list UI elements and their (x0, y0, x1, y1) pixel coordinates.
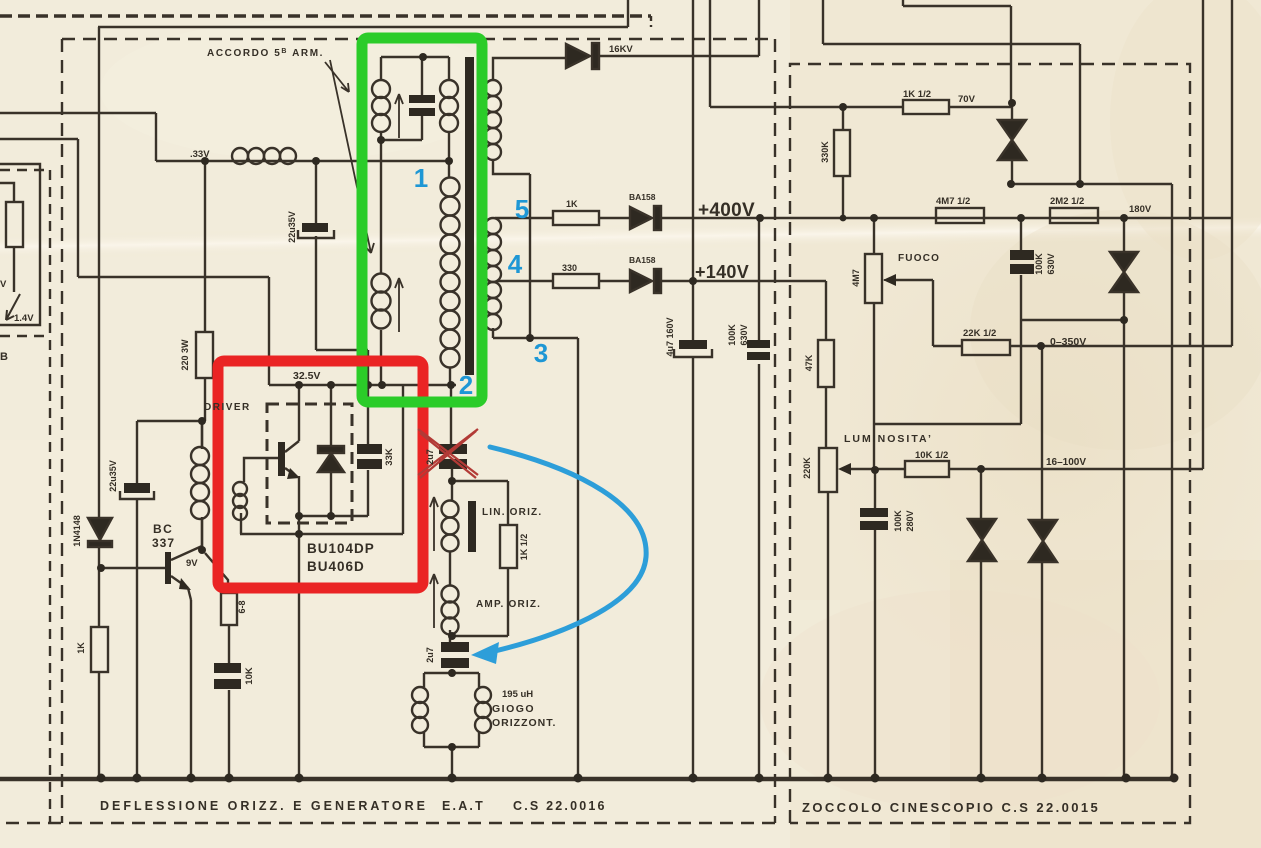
svg-text:BU406D: BU406D (307, 559, 365, 574)
svg-text:C.S 22.0016: C.S 22.0016 (513, 799, 607, 813)
wire x578 down to bus (577, 338, 579, 778)
svg-text:DRIVER: DRIVER (204, 402, 251, 413)
svg-text:330K: 330K (820, 141, 830, 163)
svg-text:330: 330 (562, 263, 577, 273)
svg-text:2u7: 2u7 (425, 647, 435, 663)
LIN ORIZ core (468, 501, 476, 552)
red highlight rectangle (218, 361, 423, 588)
top dashed border line (0, 14, 651, 18)
arrow beside AMP (430, 574, 438, 628)
giogo bottom join (424, 731, 479, 778)
left box dashed border (0, 170, 50, 823)
svg-text:1K 1/2: 1K 1/2 (519, 534, 529, 561)
resistor 1K (553, 211, 599, 225)
flyback: primary winding (441, 178, 460, 368)
blue curved arrow (490, 447, 646, 651)
resistor 330 (553, 274, 599, 288)
svg-text:LUMINOSITA’: LUMINOSITA’ (844, 433, 933, 445)
vertical x693 full (692, 0, 694, 778)
wire 330K feed x843 (842, 107, 844, 218)
wire x137 down through 22u35V cap to bus (136, 421, 138, 778)
capacitor 33K (357, 444, 382, 469)
wire 1K1/2 bottom to y636 (452, 568, 508, 636)
tap5 wire y218 (495, 217, 630, 219)
svg-text:ZOCCOLO CINESCOPIO C.S 22.0015: ZOCCOLO CINESCOPIO C.S 22.0015 (802, 800, 1100, 815)
svg-text:2u7: 2u7 (425, 449, 435, 465)
AMP ORIZ inductor (442, 586, 459, 635)
flyback: secondary winding upper (485, 80, 501, 160)
resistor (left box) (6, 202, 23, 247)
wire x381 between windings (380, 132, 382, 274)
vertical x758 from +400V through 100K cap to bus (758, 218, 760, 778)
wire x78 down to y277 (77, 139, 79, 277)
wire x403 from rail to y534 (402, 385, 404, 534)
potentiometer LUMINOSITA 220K (819, 448, 852, 492)
resistor 2M2 1/2 (1050, 208, 1098, 223)
arrow beside lower-left winding (395, 278, 403, 332)
wire x156 corner to .33V line (155, 113, 157, 161)
capacitor 22u35V (lower, BC337) (120, 483, 154, 499)
spark gap 2 (1110, 252, 1138, 292)
svg-text:16KV: 16KV (609, 44, 633, 55)
svg-text:337: 337 (152, 536, 175, 550)
svg-text:630V: 630V (739, 324, 749, 345)
svg-text:BA158: BA158 (629, 255, 656, 265)
accordo arrow 1 (325, 62, 349, 92)
junctions at driver stage (97, 417, 206, 572)
wire 6-8 branch (205, 553, 229, 778)
resistor 1K 1/2 (vertical) (500, 525, 517, 568)
trimmer capacitor (409, 95, 435, 116)
100K630V-2 feed x1021 (1020, 218, 1022, 424)
svg-text:ACCORDO 5B ARM.: ACCORDO 5B ARM. (207, 48, 324, 59)
junctions in flyback tuned section (377, 53, 427, 144)
vertical x710 to y107 (709, 0, 711, 107)
wire primary bottom to rail (449, 367, 451, 385)
wire y424 to x875 (875, 423, 1021, 425)
trimmer bottom wire y140 (381, 139, 422, 141)
+140V line y281 (661, 280, 826, 282)
potentiometer FUOCO 4M7 (865, 254, 896, 303)
wire y481 to 1K1/2 (452, 481, 508, 525)
svg-text:FUOCO: FUOCO (898, 253, 940, 264)
junctions on 32.5V rail (295, 381, 455, 389)
arrow 1.4V (6, 294, 20, 320)
junctions on 16-100V line (871, 465, 985, 474)
top dashed border of deflessione box (62, 38, 775, 40)
spark gap3 branch x981 (980, 469, 982, 778)
junction node 3 (526, 334, 534, 342)
svg-text:22u35V: 22u35V (108, 460, 118, 492)
arrow beside LIN (430, 497, 438, 551)
junctions on +400V/+140V lines (689, 214, 1128, 285)
vertical x1232 right edge (1231, 0, 1233, 346)
svg-text:4M7 1/2: 4M7 1/2 (936, 196, 970, 207)
svg-text:ORIZZONT.: ORIZZONT. (492, 717, 556, 729)
svg-text:70V: 70V (958, 94, 976, 105)
svg-text:+140V: +140V (695, 262, 749, 282)
wire driver x202 collector node (201, 421, 203, 550)
svg-text:220K: 220K (802, 457, 812, 479)
wire x382 transformer winding to rail (380, 330, 382, 385)
wire x316 from .33V down to 22u35V cap (315, 161, 317, 350)
wire y44 to x1080 (823, 43, 1080, 45)
vertical x1203 right edge (1202, 0, 1204, 469)
wire BC337 base line y568 (101, 567, 166, 569)
wire vertical x98 down left side (98, 27, 100, 778)
capacitor 100K 630V (747, 340, 770, 360)
wire y6 to x1011 (903, 5, 1011, 7)
blue arrowhead (471, 642, 499, 664)
resistor 1K (left) (91, 627, 108, 672)
wire 2u7 to LIN node (451, 481, 453, 500)
transformer: top loop wires (381, 57, 449, 80)
blue terminal numbers (414, 163, 548, 400)
driver transformer secondary coil (233, 482, 247, 520)
giogo right coil (475, 687, 491, 733)
dashed module box BU104 (267, 404, 352, 523)
svg-text:3: 3 (534, 338, 548, 368)
wire driver feed y421 (137, 420, 202, 422)
svg-text:280V: 280V (905, 510, 915, 531)
secondary tap step y174 (493, 160, 530, 174)
100K280V cap branch x875 (874, 470, 876, 778)
capacitor 2u7 (lower) (441, 642, 469, 668)
svg-text:E.A.T: E.A.T (442, 799, 485, 813)
wire y184 spark gap line (1011, 183, 1172, 185)
arrow beside top coil (395, 94, 403, 138)
svg-text:.33V: .33V (190, 149, 210, 160)
dashed stub at x651 (650, 16, 652, 27)
vertical x903 top stub (902, 0, 904, 6)
giogo top split (424, 673, 479, 687)
capacitor 2u7 (top, crossed) (439, 444, 467, 469)
capacitor 4u7 160V (674, 340, 712, 357)
0-350V line y346 (933, 345, 1232, 347)
svg-text:100K: 100K (727, 324, 737, 346)
capacitor 100K 280V (860, 508, 888, 530)
capacitor 100K 630V (zoccolo) (1010, 250, 1034, 274)
svg-text:BA158: BA158 (629, 192, 656, 202)
flyback: lower-left winding (372, 274, 391, 329)
vertical x1011 to 70V line (1010, 6, 1012, 103)
svg-text:1K: 1K (76, 642, 86, 654)
resistor 4M7 1/2 (936, 208, 984, 223)
diode BA158 (400V) (630, 206, 661, 230)
wire into left resistor (0, 183, 14, 292)
wire driver secondary top to BU base (244, 458, 278, 482)
wire x269 down to 32.5V rail (268, 277, 270, 385)
wire BC337 emitter to bus (190, 600, 192, 778)
svg-text:2M2 1/2: 2M2 1/2 (1050, 196, 1084, 207)
svg-text:B: B (0, 351, 8, 363)
resistor 6-8 (221, 593, 237, 625)
diode BA158 (140V) (630, 269, 661, 293)
svg-text:+400V: +400V (698, 200, 755, 221)
flyback: secondary winding lower (485, 218, 501, 330)
svg-text:1.4V: 1.4V (14, 313, 34, 324)
bottom dashed border of deflessione box (6, 822, 775, 824)
junctions on .33V line (201, 157, 453, 165)
svg-text:10K: 10K (244, 667, 255, 685)
wire x933 down to 0-350V line (932, 280, 934, 346)
svg-text:BC: BC (153, 522, 173, 536)
47K/+140V branch x826 (825, 281, 827, 448)
wire x451 rail to 2u7 cap (451, 385, 452, 481)
svg-text:1K: 1K (566, 199, 578, 209)
resistor 1K 1/2 (70V) (903, 100, 949, 114)
svg-text:180V: 180V (1129, 204, 1152, 215)
spark gap2 feed x1124 (1123, 218, 1125, 778)
wire node y534 (240, 533, 403, 535)
70V line y107 (710, 106, 1012, 108)
svg-text:AMP. ORIZ.: AMP. ORIZ. (476, 599, 541, 610)
svg-text:4: 4 (508, 249, 523, 279)
resistor 22K 1/2 (962, 340, 1010, 355)
wire AMP bottom node (450, 630, 452, 673)
flyback: top-right coil (440, 80, 458, 132)
vertical x1172 down to bus (1171, 184, 1173, 778)
220K pot to bus (827, 492, 829, 778)
svg-text:32.5V: 32.5V (293, 370, 320, 382)
wire BU104 emitter node y516 (299, 515, 368, 517)
damper diode (318, 446, 344, 472)
wire y320 cap bottom to x1124 (1021, 319, 1124, 321)
resistor 220 3W (196, 332, 213, 378)
vertical x823 top corner (822, 0, 824, 44)
wire jog y350 to x368 (316, 349, 368, 351)
wire x368 to rail and 33K cap (367, 350, 369, 516)
svg-text:47K: 47K (804, 354, 814, 371)
svg-text:5: 5 (515, 194, 529, 224)
LIN ORIZ inductor (442, 501, 459, 552)
red X over 2u7 capacitor (418, 429, 478, 478)
wire left entry y113 (0, 112, 156, 114)
svg-text:16–100V: 16–100V (1046, 457, 1086, 468)
wire top solid frame y27 (98, 26, 628, 28)
16-100V line y469 (844, 468, 1203, 470)
capacitor 10K (214, 663, 241, 689)
green highlight rectangle (362, 38, 482, 402)
svg-text:6-8: 6-8 (237, 600, 247, 613)
trimmer cap feed x422 (421, 57, 423, 140)
junctions on ground bus (97, 774, 1179, 783)
tap3 step (493, 328, 578, 338)
resistor 10K 1/2 (905, 461, 949, 477)
svg-text:DEFLESSIONE ORIZZ. E GENERATOR: DEFLESSIONE ORIZZ. E GENERATORE (100, 799, 428, 813)
wire left entry y139 to x78 (0, 138, 78, 140)
junctions on 0-350V net (1037, 316, 1128, 350)
wire driver secondary bottom (240, 513, 242, 534)
svg-text:1: 1 (414, 163, 428, 193)
junctions on 70V / spark gap lines (839, 99, 1084, 188)
svg-text:2: 2 (459, 370, 473, 400)
svg-text:V: V (0, 279, 7, 290)
svg-text:1K 1/2: 1K 1/2 (903, 89, 931, 100)
wire x331 damper diode to rail (330, 385, 332, 516)
giogo left coil (412, 687, 428, 733)
transistor BU104 (278, 441, 300, 479)
svg-text:BU104DP: BU104DP (307, 541, 375, 556)
tap4 wire y281 (497, 280, 630, 282)
wire vertical x628 to top edge (627, 0, 629, 27)
+400V line y218 (661, 217, 1232, 219)
flyback core bar (465, 57, 474, 375)
FUOCO wiper (890, 279, 933, 281)
svg-text:LIN. ORIZ.: LIN. ORIZ. (482, 507, 542, 518)
svg-text:GIOGO: GIOGO (492, 703, 535, 715)
FUOCO pot feed x874 (873, 218, 875, 470)
wire x299 down to bus (298, 478, 300, 778)
wire 32.5V rail y385 (269, 384, 456, 386)
wire y277 across to x269 (78, 276, 269, 278)
wire x299 BU104 collector to rail (298, 385, 300, 441)
vertical x530 tap bus (529, 174, 531, 338)
svg-text:220 3W: 220 3W (180, 339, 190, 371)
svg-text:4u7 160V: 4u7 160V (665, 317, 675, 356)
left dashed border of deflessione box (61, 39, 63, 823)
accordo arrow 2 (330, 60, 374, 253)
svg-text:4M7: 4M7 (851, 269, 861, 287)
inductor on .33V line (232, 148, 296, 164)
driver transformer primary coil (191, 421, 209, 550)
spark gap4 branch x1042 (1041, 346, 1043, 778)
svg-text:630V: 630V (1046, 253, 1056, 274)
wire .33V line y161 (156, 160, 449, 162)
svg-text:100K: 100K (893, 510, 903, 532)
spark gap 1 (998, 120, 1026, 160)
svg-text:22u35V: 22u35V (287, 211, 297, 243)
svg-text:33K: 33K (384, 448, 395, 466)
capacitor 22u35V (top) (298, 223, 334, 238)
resistor 47K (818, 340, 834, 387)
svg-text:1N4148: 1N4148 (72, 515, 82, 547)
spark gap1 leads (1011, 103, 1013, 184)
junctions at BU104 emitter node (295, 512, 335, 538)
wire LIN to AMP (449, 552, 451, 585)
diode 16KV (566, 43, 599, 69)
svg-text:195 uH: 195 uH (502, 689, 533, 700)
svg-text:10K 1/2: 10K 1/2 (915, 450, 948, 461)
spark gap 3 (968, 519, 996, 561)
svg-text:22K 1/2: 22K 1/2 (963, 328, 996, 339)
wire x205 down to 220 3W resistor (204, 161, 206, 421)
transistor BC337 (165, 546, 202, 600)
wire top-right coil to .33V node (448, 132, 450, 178)
svg-text:0–350V: 0–350V (1050, 336, 1086, 348)
left edge component box (0, 164, 40, 325)
svg-text:9V: 9V (186, 558, 198, 569)
flyback: top-left tuned coil (372, 80, 390, 132)
junctions on horizontal output column (448, 477, 456, 751)
bottom ground bus (0, 777, 1174, 781)
secondary top to 16KV diode wire (493, 0, 759, 80)
vertical x1080 down to y184 (1079, 44, 1081, 184)
resistor 330K (834, 130, 850, 176)
green bottom edge redrawn over red (408, 397, 476, 408)
spark gap 4 (1029, 520, 1057, 562)
zoccolo dashed box (790, 64, 1190, 823)
dashed vertical x775 (774, 39, 776, 823)
diode 1N4148 (88, 518, 112, 547)
svg-text:100K: 100K (1034, 253, 1044, 275)
